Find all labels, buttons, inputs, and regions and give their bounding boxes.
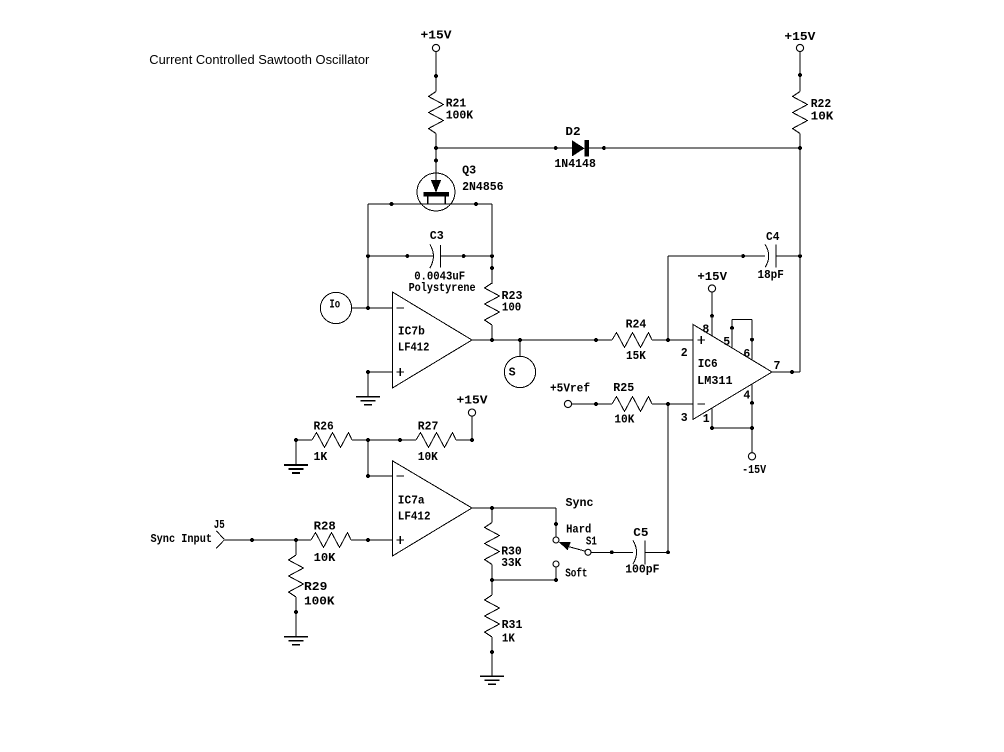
- svg-text:IC6: IC6: [698, 358, 718, 371]
- resistor R28 10K: [311, 520, 351, 564]
- wire C5 to pin3 column: [645, 550, 670, 554]
- wire C4 left: [668, 254, 765, 258]
- resistor R22 10K: [793, 92, 834, 134]
- wire R29 top stub: [295, 540, 297, 555]
- pin 3 label: [681, 412, 688, 425]
- svg-text:Sync: Sync: [566, 497, 594, 510]
- wire C3 node to R23: [490, 256, 494, 284]
- svg-text:LM311: LM311: [697, 375, 732, 388]
- wire R29 bottom to ground: [294, 597, 298, 637]
- wire D2 cathode to R22 bottom node: [589, 146, 802, 150]
- pin 2 label: [681, 347, 688, 360]
- svg-text:+15V: +15V: [697, 271, 727, 284]
- svg-text:+15V: +15V: [784, 31, 815, 44]
- switch S1 common + arm: [559, 536, 597, 556]
- wire left column down to C3 and inverting input: [366, 204, 370, 308]
- wire IC7a output row: [472, 497, 594, 510]
- svg-text:Io: Io: [329, 299, 340, 312]
- svg-text:LF412: LF412: [398, 511, 431, 524]
- power +15V terminal (right, above R22): [784, 31, 815, 52]
- svg-text:10K: 10K: [614, 414, 634, 427]
- resistor R23 100: [485, 283, 523, 325]
- svg-text:Soft: Soft: [565, 568, 587, 581]
- wire +5Vref to R25: [572, 402, 612, 406]
- wire +15V to R22: [798, 52, 802, 92]
- svg-text:Current Controlled Sawtooth Os: Current Controlled Sawtooth Oscillator: [149, 53, 369, 67]
- svg-text:1K: 1K: [314, 451, 328, 464]
- wire J5 to R28: [225, 538, 312, 542]
- power -15V terminal: [742, 453, 766, 477]
- resistor R27 10K: [416, 421, 456, 465]
- wire node R21 to D2 anode: [434, 146, 572, 150]
- svg-text:R22: R22: [811, 98, 832, 111]
- svg-text:C5: C5: [633, 527, 648, 540]
- wire down to Hard contact: [554, 508, 558, 537]
- svg-text:J5: J5: [214, 519, 225, 532]
- ground (R29): [284, 637, 308, 645]
- wire R26 to R27: [352, 438, 416, 442]
- svg-text:1: 1: [703, 413, 710, 426]
- svg-text:100pF: 100pF: [625, 564, 659, 577]
- wire R31 to ground: [491, 652, 493, 676]
- wire R21 bottom to node: [435, 134, 437, 149]
- svg-text:1N4148: 1N4148: [554, 158, 596, 171]
- wire C3 left: [368, 254, 433, 258]
- wire R23 bottom to output row: [491, 325, 493, 340]
- wire +15V to pin 8: [702, 292, 713, 337]
- wire D2 node down to Q3 gate: [434, 148, 438, 180]
- node S (sawtooth output): [504, 340, 535, 388]
- svg-text:R24: R24: [626, 319, 647, 332]
- svg-text:Q3: Q3: [462, 164, 476, 177]
- wire S1 common to C5: [591, 550, 633, 554]
- wire R28 to IC7a non-inverting input: [351, 538, 392, 542]
- svg-text:+5Vref: +5Vref: [550, 382, 590, 395]
- wire C3 right: [441, 254, 494, 258]
- power +15V terminal (above IC6): [697, 271, 727, 292]
- switch S1 Soft contact: [553, 561, 588, 581]
- svg-text:10K: 10K: [314, 552, 336, 565]
- wire C4 right to R22 column: [776, 254, 802, 258]
- op-amp IC7b LF412: [392, 292, 472, 388]
- switch S1 Hard contact: [553, 523, 591, 543]
- wire feedback node to IC7a inverting input: [366, 440, 392, 478]
- resistor R21 100K: [429, 92, 474, 134]
- capacitor C5 100pF: [625, 527, 659, 576]
- wire R22 column down to pin 7: [799, 148, 801, 372]
- wire Io to inverting input: [352, 306, 393, 310]
- svg-text:R26: R26: [314, 421, 334, 434]
- svg-text:D2: D2: [565, 126, 580, 139]
- wire right column down to C3 right: [491, 204, 493, 256]
- svg-text:33K: 33K: [501, 557, 521, 570]
- wire R22 bottom to D2 node: [799, 134, 801, 149]
- node +5Vref terminal: [550, 382, 590, 407]
- svg-text:2: 2: [681, 347, 688, 360]
- svg-text:7: 7: [774, 360, 781, 373]
- transistor Q3 2N4856: [417, 164, 504, 211]
- node Io current source: [320, 292, 351, 323]
- svg-text:10K: 10K: [418, 451, 438, 464]
- svg-text:3: 3: [681, 412, 688, 425]
- svg-text:S: S: [509, 366, 516, 379]
- wire R26 left to ground: [294, 438, 312, 465]
- svg-text:5: 5: [723, 336, 730, 349]
- svg-text:LF412: LF412: [398, 342, 430, 355]
- svg-text:100: 100: [502, 302, 521, 315]
- svg-text:+15V: +15V: [421, 30, 452, 43]
- svg-text:10K: 10K: [811, 111, 834, 124]
- resistor R29 100K: [289, 555, 335, 608]
- svg-text:Polystyrene: Polystyrene: [409, 282, 476, 295]
- svg-text:R25: R25: [613, 382, 634, 395]
- svg-text:IC7a: IC7a: [398, 494, 425, 507]
- svg-text:R21: R21: [446, 97, 467, 110]
- resistor R31 1K: [485, 580, 523, 654]
- wire non-inverting input to ground: [366, 370, 392, 397]
- power +15V terminal (left, above R21): [421, 30, 452, 52]
- resistor R24 15K: [612, 319, 652, 364]
- resistor R25 10K: [612, 382, 652, 426]
- svg-text:-15V: -15V: [742, 464, 766, 477]
- wire R24 to IC6 pin2: [652, 338, 693, 342]
- resistor R30 33K: [485, 508, 522, 580]
- svg-text:6: 6: [743, 348, 750, 361]
- svg-text:2N4856: 2N4856: [462, 181, 504, 194]
- svg-text:C3: C3: [430, 230, 444, 243]
- svg-text:+15V: +15V: [457, 395, 488, 408]
- wire pin3 column down to C5: [667, 404, 669, 552]
- svg-text:C4: C4: [766, 231, 780, 244]
- svg-text:Sync Input: Sync Input: [151, 533, 213, 546]
- op-amp IC7a LF412: [392, 461, 472, 556]
- wire +15V to R21: [434, 52, 438, 92]
- svg-text:15K: 15K: [626, 350, 646, 363]
- pin 5 / pin 6 strap: [723, 320, 754, 361]
- diode D2 1N4148: [554, 126, 596, 171]
- wire R27 to +15V: [456, 416, 474, 442]
- svg-text:100K: 100K: [446, 110, 474, 123]
- wire pin2 column up to C4 row: [667, 256, 669, 340]
- capacitor C4 18pF: [758, 231, 784, 282]
- wire Q3 source/drain row: [368, 202, 492, 206]
- ground (R26): [284, 465, 308, 473]
- op-amp IC6 LM311: [693, 324, 772, 419]
- ground (IC7b non-inverting input): [356, 397, 380, 405]
- resistor R26 1K: [312, 421, 352, 465]
- wire IC7b output row: [472, 338, 612, 342]
- ground (R31): [480, 676, 504, 684]
- svg-text:R28: R28: [314, 520, 336, 533]
- svg-text:R29: R29: [304, 581, 327, 594]
- svg-text:R27: R27: [418, 421, 439, 434]
- wire R25 to IC6 pin3: [652, 402, 693, 406]
- svg-text:R31: R31: [502, 619, 523, 632]
- svg-text:IC7b: IC7b: [398, 326, 425, 339]
- svg-text:Hard: Hard: [566, 523, 591, 536]
- wire Soft contact down to R30 bottom row: [490, 567, 558, 582]
- svg-text:S1: S1: [586, 536, 597, 549]
- svg-text:18pF: 18pF: [758, 269, 784, 282]
- connector J5 sync input: [151, 519, 225, 549]
- title text: [149, 53, 369, 67]
- wire IC6 output pin 7: [772, 360, 800, 374]
- pin 1 / pin 4 to -15V: [703, 384, 754, 453]
- power +15V terminal (above R27): [457, 395, 488, 417]
- svg-text:100K: 100K: [304, 595, 335, 608]
- svg-text:4: 4: [743, 390, 750, 403]
- svg-text:8: 8: [702, 324, 709, 337]
- capacitor C3 0.0043uF Polystyrene: [409, 230, 476, 295]
- svg-text:1K: 1K: [502, 632, 515, 645]
